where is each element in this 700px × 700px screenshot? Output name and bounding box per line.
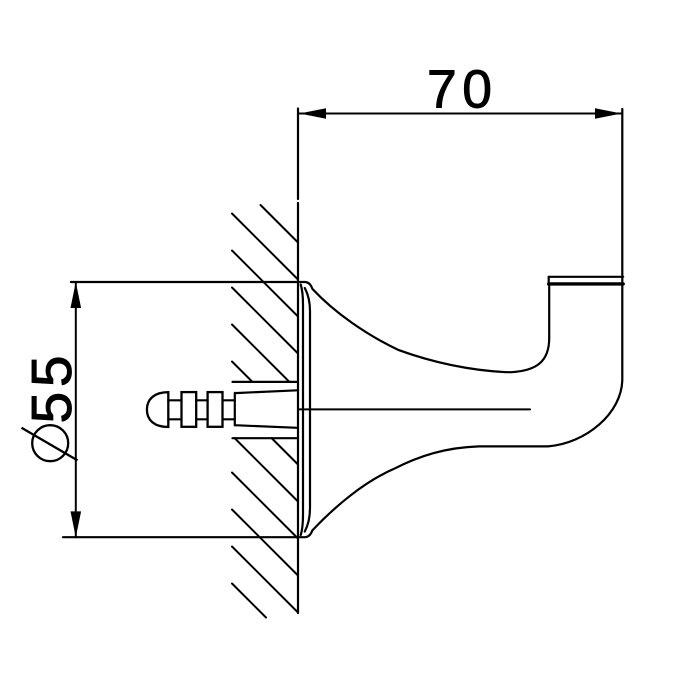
svg-text:55: 55 xyxy=(20,351,84,424)
svg-text:70: 70 xyxy=(427,61,498,120)
